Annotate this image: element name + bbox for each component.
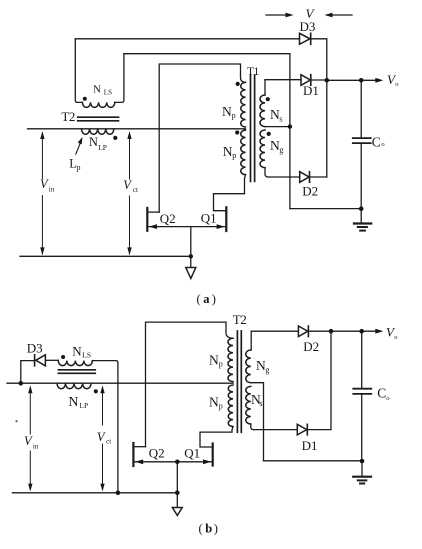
svg-text:p: p [219,402,223,411]
svg-text:s: s [279,114,282,123]
svg-text:p: p [77,163,81,172]
svg-text:g: g [265,365,269,374]
svg-text:N: N [209,395,219,410]
svg-text:p: p [232,111,236,120]
svg-text:LS: LS [104,89,112,97]
svg-text:LP: LP [79,401,88,410]
svg-text:Q1: Q1 [201,210,217,225]
svg-text:b: b [205,521,212,535]
svg-text:LS: LS [82,351,91,360]
svg-text:(: ( [197,292,201,306]
svg-text:ct: ct [106,438,111,446]
svg-text:N: N [72,344,82,359]
svg-text:D1: D1 [303,83,319,98]
svg-text:N: N [89,135,98,149]
svg-text:o: o [395,81,398,88]
svg-text:D3: D3 [300,19,316,34]
svg-text:g: g [279,145,283,154]
svg-text:): ) [212,292,216,306]
svg-text:T2: T2 [233,312,246,327]
svg-text:p: p [232,151,236,160]
svg-text:ct: ct [133,186,138,194]
svg-text:): ) [214,521,218,535]
svg-text:N: N [68,395,78,410]
svg-text:Q2: Q2 [149,445,165,460]
svg-text:in: in [49,185,55,193]
svg-text:N: N [209,353,219,368]
svg-text:s: s [259,399,262,408]
svg-text:p: p [219,360,223,369]
svg-text:o: o [381,141,384,148]
svg-text:D2: D2 [302,184,318,199]
svg-text:o: o [394,334,397,341]
svg-text:D2: D2 [303,339,319,354]
svg-text:N: N [222,104,232,119]
svg-text:a: a [203,292,210,306]
svg-text:o: o [386,395,389,402]
svg-text:D3: D3 [27,341,43,356]
svg-text:C: C [377,386,386,401]
svg-text:Q1: Q1 [184,446,200,461]
svg-text:LP: LP [98,143,107,152]
svg-text:(: ( [199,521,203,535]
svg-text:Q2: Q2 [160,211,176,226]
svg-text:T1: T1 [247,66,260,78]
svg-text:C: C [372,135,381,150]
svg-text:in: in [33,442,39,450]
svg-text:N: N [93,84,101,96]
svg-text:T2: T2 [61,109,74,124]
svg-text:D1: D1 [302,438,318,453]
svg-text:N: N [223,144,233,159]
